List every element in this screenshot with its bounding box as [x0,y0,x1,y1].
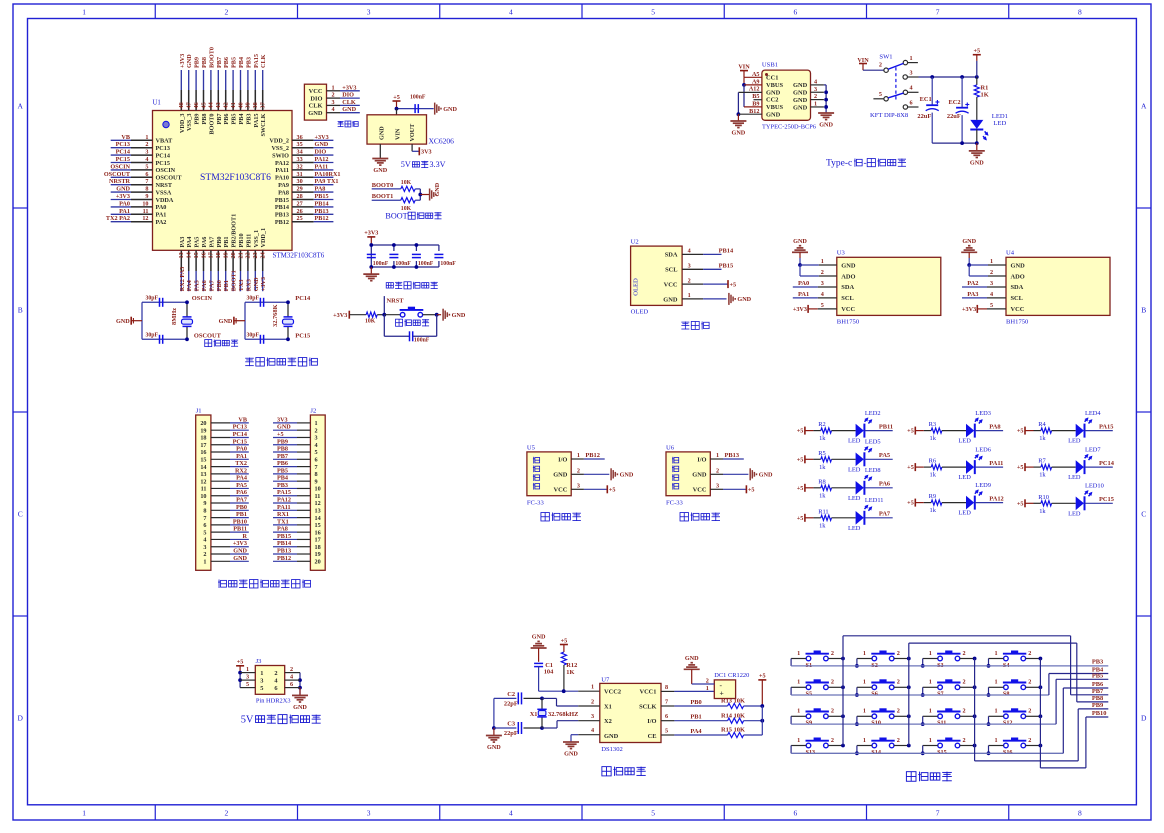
svg-text:R8: R8 [818,478,825,485]
keyboard row net PB5 [791,672,1108,724]
J2 pin 4 net PB9 [273,438,318,449]
svg-text:PA7: PA7 [208,280,215,291]
resistor R12 1K [561,652,577,691]
LED LED9 [958,482,1003,517]
U4 pin 1 GND wire [967,258,1006,267]
U4 pin 4 SCL net PA3 [962,291,1006,298]
svg-text:GND: GND [487,744,501,751]
keyboard row net PB4 [791,667,1108,695]
svg-text:2: 2 [831,650,834,657]
svg-text:PB7: PB7 [1092,688,1104,695]
svg-text:PB12: PB12 [277,555,291,562]
svg-text:R4: R4 [1038,421,1046,428]
svg-text:CC2: CC2 [766,97,778,104]
svg-text:9: 9 [145,193,148,200]
+5 power port (R7) [1017,463,1025,471]
svg-text:3: 3 [145,149,148,156]
svg-text:PA11: PA11 [989,460,1003,467]
svg-text:31: 31 [297,171,303,178]
svg-text:PA5: PA5 [194,237,201,248]
J1 pin 6 net PB10 [203,518,248,529]
svg-text:3: 3 [260,677,263,684]
svg-text:1: 1 [929,737,932,744]
svg-text:1: 1 [814,100,817,107]
U3 pin 2 ADO wire [800,265,837,276]
svg-text:PC15: PC15 [233,438,247,445]
svg-text:2: 2 [1028,737,1031,744]
svg-text:1k: 1k [1039,435,1046,442]
U1 top pin 43 PB7 net PB7 [215,57,223,125]
svg-text:I/O: I/O [697,456,706,463]
svg-text:1K: 1K [981,92,989,99]
svg-text:42: 42 [223,102,230,108]
U1 bottom pin 19 PB1 net PB1 [223,236,231,291]
svg-text:PA1: PA1 [156,212,167,219]
svg-text:GND: GND [793,104,808,111]
GND earth above C1 [531,634,547,662]
U1 left pin 9 VDDA net +3V3 [111,193,174,204]
svg-text:NRSTR: NRSTR [109,178,131,185]
U1 left pin 12 PA2 net TX2 PA2 [106,215,167,226]
svg-text:+3V3: +3V3 [793,306,807,313]
svg-text:CLK: CLK [342,99,356,106]
svg-text:30: 30 [297,178,303,185]
svg-text:S16: S16 [1003,749,1013,756]
svg-text:16: 16 [200,449,206,456]
U1 top pin 41 PB5 net PB5 [230,57,238,125]
BOOT junction + wire to GND [418,189,429,200]
U6 pin 1 I/O net PB13 [710,452,744,459]
keyboard column net PB10 [1040,659,1108,768]
+5 power port (R9) [907,499,915,507]
resistor R5 1k [805,450,856,471]
svg-text:CE: CE [648,733,657,740]
svg-text:19: 19 [200,427,206,434]
svg-text:1: 1 [797,737,800,744]
svg-text:27: 27 [297,200,303,207]
U2 pin 2 VCC net +5 [682,277,736,288]
svg-text:GND: GND [373,167,387,174]
svg-text:SCL: SCL [1011,295,1023,302]
svg-text:PB11: PB11 [879,424,893,431]
title BOOT setup circuit [385,211,441,220]
svg-text:GND: GND [553,472,568,479]
+5 power port (R8) [797,484,805,492]
U6 pin 3 VCC net +5 [710,483,754,494]
svg-text:10: 10 [315,486,321,493]
svg-text:40: 40 [237,102,244,108]
J1 pin 15 net PA1 [200,453,248,464]
svg-text:33: 33 [297,156,303,163]
push button S7 [921,679,977,698]
svg-text:LED: LED [1068,510,1081,517]
+3V3 power port (reset) [333,311,366,319]
capacitor C3 22pF [504,721,522,738]
svg-text:100nF: 100nF [395,261,411,267]
svg-text:VBUS: VBUS [766,82,783,89]
svg-text:R6: R6 [929,458,936,465]
svg-text:VBAT: VBAT [156,138,174,145]
GND earth (battery) [684,655,715,685]
svg-text:OSCIN: OSCIN [156,167,176,174]
svg-text:5: 5 [203,529,206,536]
svg-text:1: 1 [990,258,993,265]
svg-text:GND: GND [970,159,984,166]
svg-text:5V: 5V [241,715,254,726]
node PC15 [286,332,310,341]
resistor R9 1k [915,493,966,514]
type-c top rail [919,75,979,79]
svg-text:34: 34 [297,149,303,156]
svg-text:2: 2 [145,141,148,148]
svg-text:LED: LED [958,438,971,445]
XC6206 VOUT wire to 3V3 [412,144,432,155]
svg-text:4: 4 [591,727,594,734]
crystal Y2 32.768K [272,304,294,327]
U1 bottom pin 18 PB0 net PB0 [215,236,223,291]
svg-text:5: 5 [990,302,993,309]
svg-text:+5: +5 [1017,464,1024,471]
title 5V backup power [241,715,321,726]
svg-text:PA10: PA10 [275,175,289,182]
svg-text:4: 4 [910,85,913,92]
svg-text:44: 44 [208,102,215,108]
U1 top pin 48 VDD_3 net +3V3 [178,54,186,133]
svg-text:5: 5 [665,727,668,734]
svg-text:R12: R12 [566,662,577,669]
U1 bottom pin 21 PB10 net TX3 [237,233,245,291]
svg-text:3: 3 [910,69,913,76]
svg-text:LED: LED [848,495,861,502]
J2 pin 16 net PA8 [273,526,321,537]
svg-text:1: 1 [591,684,594,691]
svg-text:PB6: PB6 [223,57,230,68]
push button S3 [921,650,977,669]
svg-text:GND: GND [732,130,746,137]
svg-text:PB1: PB1 [223,280,230,291]
svg-text:+5: +5 [730,281,737,288]
svg-text:1: 1 [577,452,580,459]
svg-text:LED1: LED1 [992,113,1008,120]
push button S4 [987,650,1043,669]
svg-text:PB1: PB1 [236,511,247,518]
svg-text:30pF: 30pF [146,333,159,339]
svg-text:10K: 10K [365,319,376,325]
svg-text:1: 1 [863,737,866,744]
svg-text:5: 5 [246,681,249,688]
svg-text:S14: S14 [871,749,881,756]
svg-text:PB1: PB1 [223,236,230,247]
svg-text:PC15: PC15 [295,332,310,339]
svg-text:VB: VB [121,134,130,141]
svg-text:22pF: 22pF [504,701,518,708]
svg-text:BOOT1: BOOT1 [231,270,238,291]
svg-text:32.768K: 32.768K [272,304,279,327]
svg-text:GND: GND [604,733,619,740]
svg-text:3: 3 [315,435,318,442]
+5 power port (XC6206) [393,94,401,109]
svg-text:PA4: PA4 [236,475,247,482]
J2 pin 2 net GND [273,424,318,435]
svg-text:2: 2 [990,269,993,276]
U1 bottom pin 24 VDD_1 net +3V3 [260,228,268,291]
svg-text:BOOT1: BOOT1 [372,193,394,200]
svg-text:PC14: PC14 [116,149,130,156]
svg-text:1: 1 [929,650,932,657]
U1 left pin 10 PA0 net PA0 [111,200,167,211]
svg-text:17: 17 [200,442,206,449]
svg-text:19: 19 [315,551,321,558]
svg-text:VCC: VCC [1011,306,1025,313]
svg-text:PB13: PB13 [275,212,289,219]
svg-text:STM32F103C8T6: STM32F103C8T6 [200,172,271,183]
LED LED5 [848,439,893,474]
svg-text:S8: S8 [1003,691,1010,698]
U7 pin 1 VCC2 wire [539,684,600,694]
svg-text:PA15: PA15 [1099,424,1113,431]
svg-text:TX2: TX2 [235,460,247,467]
reset bottom loop + capacitor 100nF [384,315,436,344]
svg-text:1: 1 [145,134,148,141]
svg-text:GND: GND [116,186,130,193]
svg-text:Pin HDR2X3: Pin HDR2X3 [256,698,291,705]
J1 pin 14 net TX2 [200,460,248,471]
svg-text:12: 12 [200,478,206,485]
svg-text:2: 2 [224,808,228,817]
J2 pin 15 net TX1 [273,518,321,529]
svg-text:PA8: PA8 [989,424,1000,431]
svg-text:PA5: PA5 [236,482,247,489]
+5 power port (R6) [907,463,915,471]
svg-text:SW1: SW1 [879,54,892,61]
svg-text:PB13: PB13 [725,452,740,459]
J2 pin 7 net PB6 [273,460,318,471]
title matrix keyboard [906,772,951,782]
svg-text:GND: GND [766,89,781,96]
svg-text:LED6: LED6 [975,447,991,454]
svg-text:4: 4 [990,291,993,298]
svg-text:5: 5 [651,808,655,817]
svg-text:U4: U4 [1006,250,1015,257]
svg-text:8: 8 [203,508,206,515]
title clock module [602,767,646,776]
svg-text:I/O: I/O [558,456,567,463]
svg-text:2: 2 [224,8,228,17]
svg-text:PB8: PB8 [201,57,208,68]
svg-text:PB11: PB11 [233,526,247,533]
svg-text:22uF: 22uF [917,113,931,120]
svg-text:3: 3 [990,280,993,287]
svg-text:22: 22 [245,252,252,258]
svg-text:PB10: PB10 [233,518,247,525]
svg-text:PB8: PB8 [277,446,288,453]
svg-text:SDA: SDA [1011,284,1024,291]
svg-text:U7: U7 [601,676,610,683]
svg-text:PB14: PB14 [277,540,291,547]
svg-text:9: 9 [203,500,206,507]
svg-text:1: 1 [716,452,719,459]
header J3 body [255,658,290,704]
J1 pin 8 net PB0 [203,504,248,515]
GND earth above U4 [961,238,977,265]
download port connector body [304,84,326,120]
svg-text:22pF: 22pF [504,730,518,737]
svg-text:DIO: DIO [310,95,322,102]
svg-text:PA1: PA1 [119,208,130,215]
svg-text:LED: LED [958,510,971,517]
svg-text:25: 25 [297,215,303,222]
svg-text:3: 3 [367,8,371,17]
svg-text:17: 17 [208,252,215,258]
GND earth (J3) [292,688,308,711]
J1 pin 9 net PA7 [203,497,248,508]
svg-text:GND: GND [315,141,329,148]
svg-text:U6: U6 [666,444,675,451]
svg-text:2: 2 [963,737,966,744]
svg-text:VBUS: VBUS [766,104,783,111]
svg-text:46: 46 [193,102,200,108]
svg-text:10: 10 [200,493,206,500]
GND earth (right of cap) [435,103,458,115]
svg-text:PB4: PB4 [277,475,288,482]
svg-text:11: 11 [143,208,149,215]
U1 bottom pin 14 PA4 net PA4 [186,237,194,292]
svg-text:S7: S7 [937,691,944,698]
svg-text:+3V3: +3V3 [962,306,976,313]
svg-text:VDDA: VDDA [156,197,174,204]
svg-text:LED11: LED11 [865,497,884,504]
svg-text:PA0: PA0 [156,204,167,211]
svg-text:D: D [17,714,23,723]
push button S13 [791,737,845,756]
svg-text:OSCIN: OSCIN [192,295,213,302]
svg-text:1: 1 [995,650,998,657]
J1 pin 16 net PA0 [200,446,248,457]
svg-text:-: - [864,159,867,169]
svg-text:EC1: EC1 [920,96,932,103]
svg-text:J1: J1 [196,408,202,415]
capacitor C1 104 [534,662,554,691]
svg-text:PC14: PC14 [233,431,247,438]
svg-text:OSCIN: OSCIN [110,163,130,170]
net label NRST + wire down [384,296,404,315]
svg-text:GND: GND [793,238,807,245]
svg-text:+3V3: +3V3 [260,277,267,291]
svg-text:PB6: PB6 [223,114,230,125]
J1 pin 10 net PA6 [200,489,248,500]
keyboard column net PB7 [843,636,1108,746]
svg-text:ADO: ADO [841,273,855,280]
svg-text:3V3: 3V3 [421,149,432,156]
svg-text:2: 2 [290,666,293,673]
GND earth above U3 [792,238,808,265]
svg-text:PB15: PB15 [719,263,734,270]
svg-text:PB4: PB4 [238,57,245,68]
svg-text:DIO: DIO [315,149,327,156]
svg-text:VCC1: VCC1 [639,689,656,696]
svg-text:S11: S11 [937,720,946,727]
push button S14 [855,737,911,756]
+5 power port (R11) [797,514,805,522]
svg-text:1: 1 [797,679,800,686]
svg-text:PC14: PC14 [156,152,170,159]
svg-text:PB5: PB5 [231,114,238,125]
svg-text:J2: J2 [310,408,316,415]
switch SW1 KFT DIP-8X8 [857,54,918,120]
filter caps rails [369,243,439,269]
svg-text:37: 37 [260,102,267,108]
title IR sensor (U6) [680,513,720,521]
svg-text:+3V3: +3V3 [364,230,378,237]
LED1 LED [970,113,1008,143]
svg-text:VCC: VCC [841,306,855,313]
U3 pin 4 SCL net PA1 [793,291,837,298]
svg-text:LED10: LED10 [1085,483,1104,490]
svg-text:45: 45 [200,102,207,108]
title Type-c power circuit [826,159,906,169]
header J1 body [196,408,211,571]
IR sensor U6 FC-33 body [666,444,710,506]
capacitor 30pF (top, 32k) [247,296,264,307]
svg-text:1: 1 [246,666,249,673]
svg-text:48: 48 [178,102,185,108]
J1 pin 19 net PC13 [200,424,248,435]
svg-text:2: 2 [203,551,206,558]
svg-text:+3V3: +3V3 [333,312,347,319]
svg-text:1: 1 [929,708,932,715]
U7 pin 8 VCC1 wire to battery [661,684,714,692]
LED LED6 [958,447,1003,482]
U1 right pin 34 SWIO net DIO [272,149,333,160]
svg-text:TX1: TX1 [277,518,289,525]
svg-text:10: 10 [142,200,148,207]
electrolytic capacitor EC1 22uF [917,77,939,143]
svg-text:GND: GND [620,472,634,479]
capacitor 100nF filter 2 [389,243,411,269]
svg-text:GND: GND [443,106,457,113]
svg-text:+5: +5 [907,428,914,435]
svg-text:+5: +5 [609,487,616,494]
svg-text:1k: 1k [819,464,826,471]
svg-text:DC1 CR1220: DC1 CR1220 [714,672,749,679]
svg-text:PA3: PA3 [967,291,978,298]
svg-text:PA10RX1: PA10RX1 [315,171,341,178]
node OSCOUT [185,332,222,341]
svg-text:GND: GND [793,90,808,97]
svg-text:U5: U5 [527,444,536,451]
J1 pin 12 net PA4 [200,475,248,486]
svg-text:TYPEC-250D-BCP6: TYPEC-250D-BCP6 [762,124,816,131]
svg-text:R1: R1 [981,85,989,92]
svg-text:GND: GND [564,751,578,758]
svg-text:1k: 1k [1039,472,1046,479]
svg-text:CC1: CC1 [766,75,778,82]
U1 left pin 5 OSCIN net OSCIN [110,163,175,174]
download port pin 1 net +3V3 [327,84,360,91]
svg-text:A: A [17,102,23,111]
svg-text:17: 17 [315,537,321,544]
U1 bottom pin 15 PA5 net PA5 [193,237,201,292]
LED LED2 [848,410,893,445]
crystal circuit 8MHz - wires [131,302,187,339]
svg-text:3V3: 3V3 [277,416,288,423]
svg-text:GND: GND [819,122,833,129]
U7 pin 5 CE net PA4 + resistor R15 10K [661,706,762,738]
svg-text:7: 7 [145,178,148,185]
svg-text:LED9: LED9 [975,482,991,489]
J2 pin 13 net PA11 [273,504,321,515]
resistor R3 1k [915,421,966,442]
